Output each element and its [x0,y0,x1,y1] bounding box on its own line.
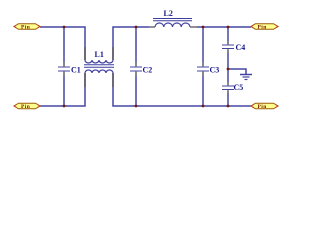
svg-text:C5: C5 [234,83,244,92]
port Pin top-left [14,24,40,31]
svg-text:Pin: Pin [21,104,30,110]
svg-text:L2: L2 [164,9,173,18]
inductor L2 [149,9,197,27]
wire ground branch [228,69,246,74]
node C1 bottom junction [63,105,66,108]
svg-text:C4: C4 [236,43,246,52]
ground [240,75,252,80]
wire top-left rail [40,27,85,60]
capacitor C2 [130,62,152,76]
wire C4-C5 middle vertical [227,53,229,82]
wire C2 vertical lower [135,76,137,106]
wire C5 vertical lower [227,94,229,107]
wire top rail between L1 and L2 [113,27,149,60]
node C4 top junction [227,26,230,29]
wire C1 vertical upper [63,27,65,62]
node C3 top junction [202,26,205,29]
port Pin bottom-right [251,103,278,110]
node C1 top junction [63,26,66,29]
node C2 top junction [135,26,138,29]
capacitor C3 [197,62,219,76]
wire C2 vertical upper [135,27,137,62]
capacitor C5 [222,82,243,94]
node ground tee junction [227,68,230,71]
svg-text:C3: C3 [210,66,220,75]
wire top rail right of L2 [197,26,251,28]
capacitor C1 [58,62,81,76]
wire C1 vertical lower [63,76,65,106]
svg-text:Pin: Pin [258,25,267,31]
inductor L1 (common-mode choke) [84,47,114,87]
wire C3 vertical upper [202,27,204,62]
node C3 bottom junction [202,105,205,108]
svg-text:C2: C2 [143,66,153,75]
wire bottom rail right of L1 [113,73,251,106]
svg-text:Pin: Pin [258,104,267,110]
svg-text:L1: L1 [95,50,104,59]
svg-text:Pin: Pin [21,25,30,31]
wire bottom-left rail [40,73,85,106]
port Pin bottom-left [14,103,40,110]
node C5 bottom junction [227,105,230,108]
svg-text:C1: C1 [71,66,81,75]
port Pin top-right [251,24,278,31]
wire C4 vertical upper [227,27,229,41]
wire C3 vertical lower [202,76,204,106]
node C2 bottom junction [135,105,138,108]
capacitor C4 [222,41,245,53]
